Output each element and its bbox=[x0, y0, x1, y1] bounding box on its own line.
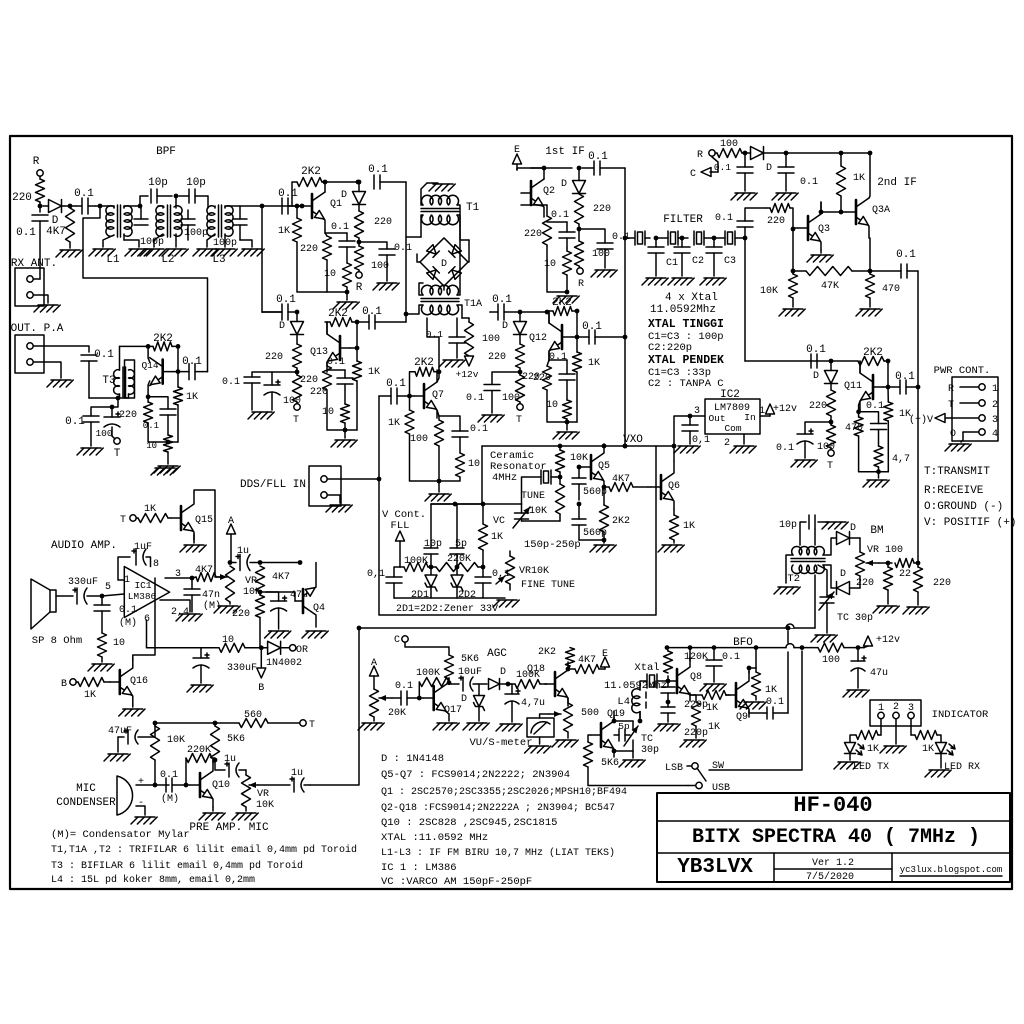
capacitor 47u bbox=[260, 590, 308, 629]
resistor 10 Q12 bbox=[546, 400, 572, 419]
wire bbox=[327, 478, 379, 480]
svg-text:0.1: 0.1 bbox=[94, 349, 114, 361]
capacitor 0.1 out bbox=[178, 356, 208, 380]
wire meter gnd bbox=[539, 737, 541, 744]
svg-text:VC :VARCO AM 150pF-250pF: VC :VARCO AM 150pF-250pF bbox=[381, 876, 532, 888]
resistor 4K7 q18 bbox=[568, 655, 605, 674]
capacitor 0.1 q7 em bbox=[439, 416, 488, 453]
svg-text:11.0592Mhz: 11.0592Mhz bbox=[650, 304, 716, 316]
svg-text:0.1: 0.1 bbox=[394, 243, 412, 254]
svg-text:4MHz: 4MHz bbox=[492, 472, 517, 484]
svg-text:(M): (M) bbox=[161, 793, 179, 805]
wire Q9 collector bbox=[748, 668, 750, 673]
ground bbox=[700, 684, 726, 691]
wire emitter rail bbox=[327, 390, 357, 430]
node bbox=[868, 269, 873, 274]
svg-text:3: 3 bbox=[992, 415, 998, 426]
diode D bm bottom bbox=[823, 565, 860, 595]
svg-text:4K7: 4K7 bbox=[578, 655, 596, 666]
terminal E q18 bbox=[601, 649, 610, 669]
title block row divider bbox=[657, 852, 1010, 854]
ground bbox=[590, 545, 616, 552]
ground bbox=[248, 412, 274, 419]
ground bbox=[807, 255, 833, 262]
wire y504 bbox=[431, 503, 522, 505]
transistor Q17 bbox=[419, 684, 462, 716]
connector PWR box bbox=[952, 377, 998, 441]
node bbox=[916, 561, 921, 566]
svg-text:0.1: 0.1 bbox=[182, 356, 202, 368]
node bbox=[404, 312, 409, 317]
terminal pin bbox=[27, 359, 33, 365]
wire bus down bbox=[405, 182, 407, 314]
svg-text:1K: 1K bbox=[368, 367, 380, 378]
capacitor 330uF in bbox=[56, 577, 101, 604]
wire Q7 collector bbox=[437, 372, 439, 382]
wire bbox=[102, 594, 124, 596]
ground bbox=[56, 250, 82, 257]
ground bbox=[668, 278, 694, 285]
node bbox=[916, 385, 921, 390]
mic condenser bbox=[117, 776, 144, 815]
wire BFO rail bbox=[667, 647, 786, 649]
svg-text:1K: 1K bbox=[683, 521, 695, 532]
wire xtal-L4 bbox=[639, 688, 641, 690]
node bbox=[258, 590, 263, 595]
wire bbox=[327, 495, 340, 503]
wire Q11 emitter bbox=[859, 401, 860, 412]
varicap TC 30p bm bbox=[818, 565, 873, 633]
wire BPF out bbox=[240, 205, 302, 207]
svg-text:8: 8 bbox=[153, 559, 159, 570]
ground bbox=[214, 606, 240, 613]
terminal T out bbox=[300, 720, 315, 731]
resistor 10 Q2 bbox=[544, 248, 572, 275]
ground bbox=[119, 709, 145, 716]
svg-text:Q2: Q2 bbox=[543, 186, 555, 197]
svg-text:Q19: Q19 bbox=[607, 709, 625, 720]
svg-text:C2:220p: C2:220p bbox=[648, 342, 692, 354]
svg-text:100p: 100p bbox=[140, 237, 164, 248]
wire bbox=[578, 224, 580, 241]
resistor 1K Q1 base bbox=[278, 206, 302, 242]
svg-text:0.1: 0.1 bbox=[766, 697, 784, 708]
resistor 2K2 Q12 bbox=[547, 297, 577, 316]
ground bbox=[700, 278, 726, 285]
wire Q12 collector bbox=[548, 311, 550, 323]
svg-text:10K: 10K bbox=[760, 286, 778, 297]
svg-text:2: 2 bbox=[992, 400, 998, 411]
node bbox=[258, 560, 263, 565]
svg-text:4K7: 4K7 bbox=[272, 572, 290, 583]
resistor 10 fb bbox=[219, 635, 261, 652]
regulator IC2 LM7809 box bbox=[705, 399, 760, 434]
ground bbox=[591, 270, 617, 277]
ground bbox=[496, 724, 522, 731]
transformer T1A bbox=[406, 226, 482, 318]
capacitor 0.1 bbox=[806, 344, 826, 368]
wire 2nd IF bus low bbox=[917, 387, 919, 563]
resistor 2K2 Q13 bbox=[325, 308, 357, 327]
ground bbox=[34, 305, 60, 312]
resistor 5K6 mic bbox=[211, 723, 246, 760]
capacitor 0.1 PA out bbox=[81, 349, 114, 398]
svg-text:100: 100 bbox=[283, 396, 301, 407]
svg-text:PWR CONT.: PWR CONT. bbox=[934, 365, 991, 377]
svg-text:BITX SPECTRA 40 ( 7MHz ): BITX SPECTRA 40 ( 7MHz ) bbox=[692, 826, 980, 849]
wire sw common bbox=[709, 651, 802, 770]
wire y361 rail bbox=[745, 360, 858, 362]
wire bbox=[840, 196, 842, 212]
svg-text:D: D bbox=[441, 259, 447, 270]
connector RX ANT box bbox=[15, 268, 44, 306]
node bbox=[357, 626, 362, 631]
wire bbox=[878, 472, 880, 478]
pin 1 bbox=[759, 406, 770, 417]
resistor 100 bbox=[575, 241, 611, 266]
ground bbox=[791, 460, 817, 467]
ground bbox=[553, 296, 579, 303]
resistor 220 Q2 base bbox=[521, 205, 552, 245]
wire pin2 bbox=[895, 719, 897, 744]
svg-text:10p: 10p bbox=[424, 539, 442, 550]
node filter out bbox=[743, 236, 748, 241]
capacitor 0.1 Q1 emitter bbox=[325, 222, 355, 247]
wire Q19 emit bbox=[613, 749, 615, 751]
wire 5K6 to switch bbox=[588, 767, 688, 786]
ground bbox=[425, 494, 451, 501]
svg-text:10K: 10K bbox=[167, 735, 185, 746]
svg-text:100p: 100p bbox=[213, 238, 237, 249]
transistor Q2 bbox=[521, 179, 555, 217]
svg-text:1K: 1K bbox=[186, 392, 198, 403]
svg-text:Q15: Q15 bbox=[195, 515, 213, 526]
resistor 220 Q11 bbox=[809, 384, 836, 417]
wire bbox=[794, 647, 818, 649]
svg-text:4,7u: 4,7u bbox=[521, 698, 545, 709]
capacitor 47uF bbox=[108, 723, 155, 752]
node bbox=[612, 749, 617, 754]
ground bbox=[674, 446, 700, 453]
node bbox=[623, 236, 628, 241]
node bbox=[876, 469, 881, 474]
wire mixer bottom bbox=[443, 286, 445, 290]
capacitor 0,1 fll R bbox=[475, 567, 510, 598]
terminal R agc bbox=[356, 270, 363, 294]
svg-text:T: T bbox=[114, 448, 121, 460]
terminal pin bbox=[27, 276, 33, 282]
svg-text:T1: T1 bbox=[466, 202, 480, 214]
node bbox=[666, 700, 671, 705]
svg-text:1K: 1K bbox=[588, 358, 600, 369]
wire Q13 base bbox=[350, 347, 357, 349]
capacitor 0.1 Q11 out bbox=[888, 371, 918, 394]
svg-text:B: B bbox=[61, 679, 67, 690]
resistor 100K fll bbox=[400, 556, 436, 572]
resistor 1K Q3A bbox=[837, 153, 866, 196]
wire bbox=[326, 260, 328, 292]
svg-text:2D1=2D2:Zener 33V: 2D1=2D2:Zener 33V bbox=[396, 604, 498, 615]
ground bbox=[493, 600, 519, 607]
resistor 470 Q11 em bbox=[854, 412, 863, 472]
svg-text:0.1: 0.1 bbox=[395, 681, 413, 692]
wire bbox=[216, 576, 220, 578]
wire bbox=[749, 667, 756, 669]
capacitor 0.1 bfo rail bbox=[706, 648, 740, 682]
wire Q14 base bbox=[173, 371, 178, 373]
svg-text:L4: L4 bbox=[617, 696, 630, 708]
resistor 470 Q11 bbox=[827, 416, 864, 448]
svg-text:C: C bbox=[690, 169, 696, 180]
svg-text:5K6: 5K6 bbox=[461, 654, 479, 665]
capacitor 0.1 100 bbox=[776, 422, 835, 458]
terminal T bbox=[827, 448, 834, 472]
svg-text:Q17: Q17 bbox=[444, 705, 462, 716]
border frame bbox=[10, 136, 1012, 889]
wire bbox=[39, 221, 41, 279]
ground bbox=[658, 545, 684, 552]
resistor 220 Q14 em bbox=[119, 397, 178, 442]
wire bbox=[405, 314, 407, 322]
ground bbox=[265, 631, 291, 638]
svg-text:220: 220 bbox=[300, 244, 318, 255]
svg-text:Q11: Q11 bbox=[844, 381, 862, 392]
terminal C agc bbox=[394, 635, 449, 655]
ground bbox=[525, 746, 551, 753]
capacitor 1u agc bbox=[230, 546, 260, 571]
ground bbox=[302, 631, 328, 638]
svg-text:0.1: 0.1 bbox=[426, 329, 443, 340]
svg-text:2K2: 2K2 bbox=[863, 347, 883, 359]
resistor 10K vxo bbox=[556, 446, 589, 472]
svg-text:Q2-Q18 :FCS9014;2N2222A ; 2N39: Q2-Q18 :FCS9014;2N2222A ; 2N3904; BC547 bbox=[381, 803, 615, 814]
svg-text:1K: 1K bbox=[388, 418, 400, 429]
ground bbox=[779, 309, 805, 316]
resistor 10 Q13 bbox=[322, 404, 350, 423]
svg-text:1uF: 1uF bbox=[134, 542, 152, 553]
wire 2nd IF bus bbox=[917, 271, 919, 387]
resistor 100 bbox=[355, 246, 390, 272]
wire down to Q13 row bbox=[261, 206, 263, 312]
svg-text:Q9: Q9 bbox=[736, 712, 748, 723]
svg-text:R: R bbox=[578, 279, 584, 290]
wire bbox=[547, 245, 567, 292]
node RX in bbox=[38, 204, 43, 209]
svg-text:Q8: Q8 bbox=[690, 672, 702, 683]
svg-text:R:RECEIVE: R:RECEIVE bbox=[924, 485, 984, 497]
node bbox=[784, 151, 789, 156]
resistor 2K2 Q5 bbox=[600, 505, 631, 540]
svg-text:(+)V: (+)V bbox=[909, 414, 933, 426]
resistor 2K2 Q11 bbox=[858, 347, 888, 366]
ground bbox=[88, 664, 114, 671]
node bbox=[886, 561, 891, 566]
diode D detector bbox=[341, 182, 366, 205]
svg-text:IC1: IC1 bbox=[134, 580, 151, 591]
capacitor 0.1 2nd bbox=[778, 153, 818, 191]
pot 500 bbox=[549, 703, 599, 732]
ground bbox=[740, 702, 766, 709]
svg-text:T: T bbox=[516, 415, 522, 426]
terminal E bbox=[513, 145, 522, 170]
svg-text:T: T bbox=[309, 720, 315, 731]
terminal pin bbox=[27, 343, 33, 349]
zener 2D2 bbox=[451, 567, 476, 601]
node bbox=[343, 428, 348, 433]
svg-text:FLL: FLL bbox=[391, 520, 410, 532]
node bbox=[886, 359, 891, 364]
svg-text:0.1: 0.1 bbox=[549, 352, 567, 363]
node bbox=[829, 359, 834, 364]
resistor 220 Q3 base bbox=[766, 204, 793, 230]
svg-text:220: 220 bbox=[265, 352, 283, 363]
svg-text:2K2: 2K2 bbox=[552, 297, 572, 309]
svg-text:Q6: Q6 bbox=[668, 481, 680, 492]
node bbox=[298, 560, 303, 565]
wire Q3A base bbox=[841, 211, 846, 213]
wire bbox=[625, 237, 634, 239]
wire mixer left bbox=[417, 254, 420, 262]
svg-text:Q3A: Q3A bbox=[872, 205, 890, 216]
ceramic resonator bbox=[522, 470, 561, 504]
transistor Q12 bbox=[529, 311, 572, 361]
svg-text:D: D bbox=[813, 371, 819, 382]
svg-text:10p: 10p bbox=[148, 177, 168, 189]
transistor Q15 bbox=[168, 492, 213, 540]
node bbox=[666, 679, 671, 684]
svg-text:0.1: 0.1 bbox=[895, 371, 915, 383]
wire bbox=[310, 628, 359, 785]
connector DDS box bbox=[309, 466, 341, 506]
svg-text:10: 10 bbox=[222, 635, 234, 646]
node bbox=[542, 166, 547, 171]
wire bbox=[358, 238, 360, 246]
svg-text:D: D bbox=[279, 321, 285, 332]
resistor 1K Q15 bbox=[136, 504, 168, 523]
ground bbox=[199, 813, 225, 820]
svg-text:LSB: LSB bbox=[665, 763, 683, 774]
svg-text:2nd IF: 2nd IF bbox=[877, 177, 917, 189]
svg-text:220: 220 bbox=[524, 229, 542, 240]
wire Q13 collector bbox=[326, 322, 328, 334]
node bbox=[437, 479, 442, 484]
wire Q9 emitter bbox=[748, 711, 750, 713]
node bbox=[623, 444, 628, 449]
LED RX bbox=[936, 743, 981, 774]
node bbox=[623, 444, 628, 449]
svg-text:IC 1 : LM386: IC 1 : LM386 bbox=[381, 862, 457, 874]
svg-text:0.1: 0.1 bbox=[119, 605, 137, 616]
svg-text:5K6: 5K6 bbox=[601, 758, 619, 769]
wire bbox=[695, 726, 697, 738]
svg-text:220: 220 bbox=[119, 410, 137, 421]
wire bbox=[410, 434, 440, 481]
wire bbox=[559, 472, 561, 484]
svg-text:OR: OR bbox=[296, 645, 308, 656]
transistor Q3A bbox=[846, 198, 890, 238]
resistor 10K mic bbox=[151, 723, 186, 785]
svg-text:Q1 : 2SC2570;2SC3355;2SC2026;M: Q1 : 2SC2570;2SC3355;2SC2026;MPSH10;BF49… bbox=[381, 787, 627, 798]
ground bbox=[873, 606, 899, 613]
wire bbox=[39, 202, 41, 212]
capacitor 0.1 Q14 em bbox=[143, 397, 176, 435]
node bbox=[295, 204, 300, 209]
diode D Q13 bbox=[279, 312, 304, 335]
capacitor 220p bfo a bbox=[661, 681, 675, 702]
capacitor 10p bbox=[148, 177, 172, 203]
svg-text:D: D bbox=[840, 569, 846, 580]
resistor 1K fll bbox=[479, 504, 504, 567]
node bbox=[138, 204, 143, 209]
resistor 10 q7 bbox=[456, 453, 481, 477]
node bbox=[518, 310, 523, 315]
transistor Q13 bbox=[310, 322, 350, 372]
connector OUT PA box bbox=[15, 335, 44, 373]
wire bbox=[344, 423, 346, 438]
resistor 4K7 bbox=[46, 206, 76, 248]
node bbox=[453, 502, 458, 507]
svg-text:0.1: 0.1 bbox=[806, 344, 826, 356]
terminal B down bbox=[257, 648, 266, 694]
op-amp IC1 LM386 bbox=[105, 559, 189, 625]
wire FLL left edge bbox=[379, 446, 656, 615]
svg-text:1u: 1u bbox=[237, 546, 249, 557]
capacitor 10p fll bbox=[424, 504, 442, 567]
node bbox=[577, 502, 582, 507]
wire bbox=[346, 292, 348, 300]
wire bbox=[439, 446, 460, 481]
resistor 220 bm bbox=[856, 563, 893, 604]
terminal +12v bfo bbox=[858, 647, 864, 649]
svg-text:100K: 100K bbox=[416, 668, 440, 679]
capacitor 0.1 bbox=[579, 229, 630, 268]
wire IF bus bbox=[624, 168, 626, 446]
ground bbox=[731, 193, 757, 200]
wire Q1 collector bbox=[324, 182, 326, 192]
diode D agc bbox=[489, 667, 509, 690]
resistor 220 bbox=[488, 335, 525, 369]
svg-text:1K: 1K bbox=[144, 504, 156, 515]
ground bbox=[187, 685, 213, 692]
wire Q3A emitter bbox=[869, 238, 871, 271]
ground bbox=[925, 770, 951, 777]
wire mic plus bbox=[136, 784, 169, 786]
capacitor 47u bfo bbox=[851, 648, 888, 688]
transistor Q1 bbox=[302, 192, 342, 230]
capacitor 0.1 coupling bbox=[74, 188, 95, 214]
svg-text:0.1: 0.1 bbox=[16, 227, 36, 239]
svg-text:YB3LVX: YB3LVX bbox=[677, 856, 753, 879]
node bbox=[345, 290, 350, 295]
svg-text:1K: 1K bbox=[853, 173, 865, 184]
capacitor 0.1 Q12 out bbox=[577, 321, 625, 344]
svg-text:T: T bbox=[120, 515, 126, 526]
svg-text:+: + bbox=[138, 777, 144, 788]
wire bbox=[576, 372, 578, 422]
diode D Q11 bbox=[813, 361, 838, 384]
svg-text:10: 10 bbox=[113, 638, 125, 649]
node bbox=[819, 210, 824, 215]
svg-text:Q10 : 2SC828 ,2SC945,2SC1815: Q10 : 2SC828 ,2SC945,2SC1815 bbox=[381, 817, 557, 829]
resistor 100K agc2 bbox=[508, 670, 545, 689]
node bbox=[146, 344, 151, 349]
terminal R 2nd bbox=[697, 150, 715, 161]
svg-text:R: R bbox=[356, 282, 363, 294]
capacitor 1u to tx bbox=[258, 768, 310, 792]
svg-text:HF-040: HF-040 bbox=[793, 793, 872, 818]
pin 3 bbox=[908, 703, 914, 719]
node bbox=[672, 444, 677, 449]
